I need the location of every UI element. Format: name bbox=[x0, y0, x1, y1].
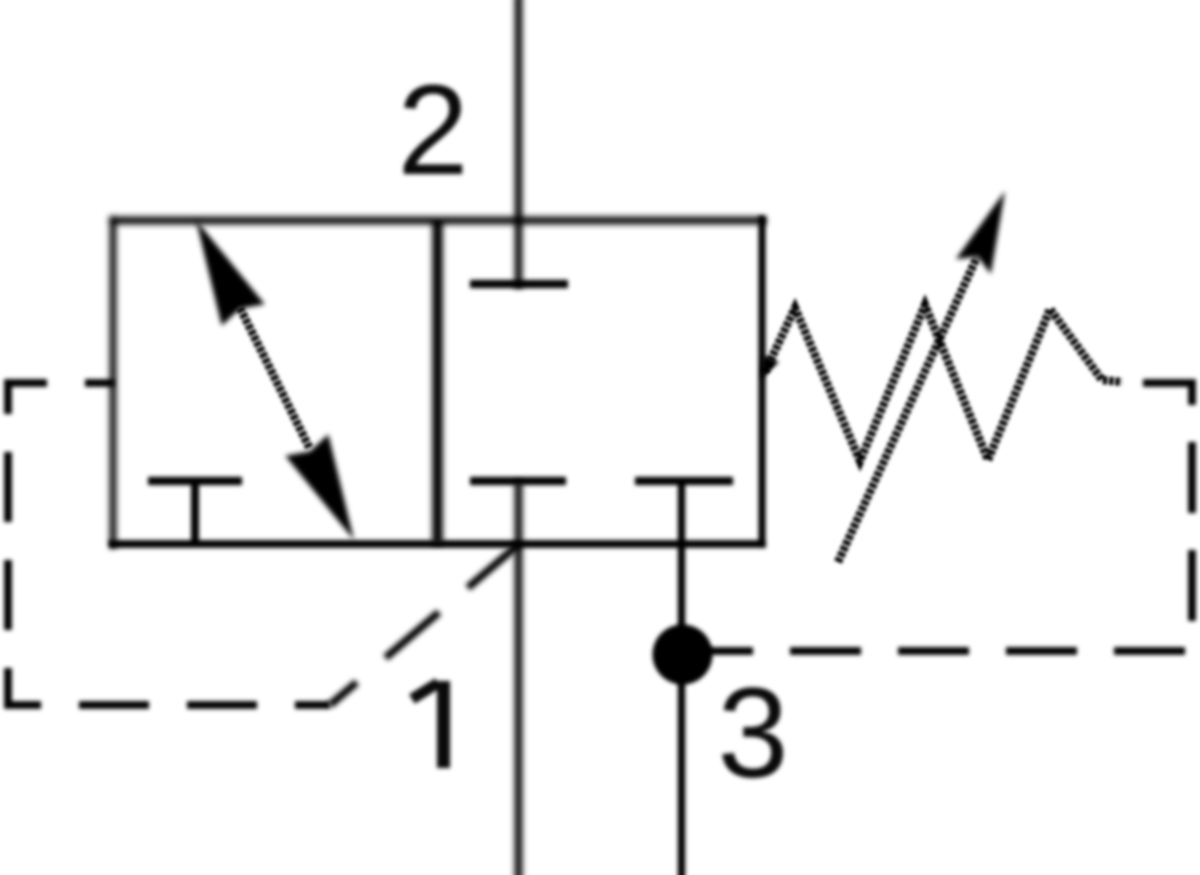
port 2 line bbox=[515, 0, 523, 288]
junction node at port 3 bbox=[653, 625, 713, 685]
port 3 line bbox=[678, 481, 685, 875]
flow arrow head (bottom) bbox=[285, 434, 354, 540]
envelope right edge bbox=[758, 216, 765, 548]
port 1 seat bar bbox=[470, 477, 566, 485]
adjustment arrow head bbox=[956, 191, 1005, 274]
left pilot line (dashed) bbox=[8, 383, 330, 705]
port 1 line bbox=[515, 481, 523, 875]
port 2 seat bar bbox=[470, 280, 568, 288]
envelope top edge bbox=[109, 217, 766, 225]
right pilot line (dashed) bbox=[682, 383, 1192, 651]
flow arrow shaft (dashed) in left chamber bbox=[240, 308, 310, 449]
flow arrow head (top) bbox=[196, 220, 265, 326]
label 1 (drawn, Arial-style no-foot) bbox=[437, 681, 450, 768]
port 3 seat bar bbox=[635, 477, 733, 485]
spring attachment arrowhead bbox=[761, 355, 779, 379]
envelope divider bbox=[432, 220, 443, 544]
envelope bottom edge bbox=[109, 540, 766, 548]
envelope left edge bbox=[110, 216, 117, 548]
spring (fine dashed zig-zag) bbox=[765, 305, 1122, 461]
svg-text:3: 3 bbox=[717, 662, 788, 805]
left chamber blocked port bar bbox=[148, 477, 242, 485]
left chamber blocked port stem bbox=[191, 481, 199, 546]
left pilot diagonal to port 1 (dashed) bbox=[330, 545, 518, 705]
svg-text:2: 2 bbox=[397, 59, 468, 202]
adjustment arrow shaft (dashed) bbox=[838, 257, 977, 562]
